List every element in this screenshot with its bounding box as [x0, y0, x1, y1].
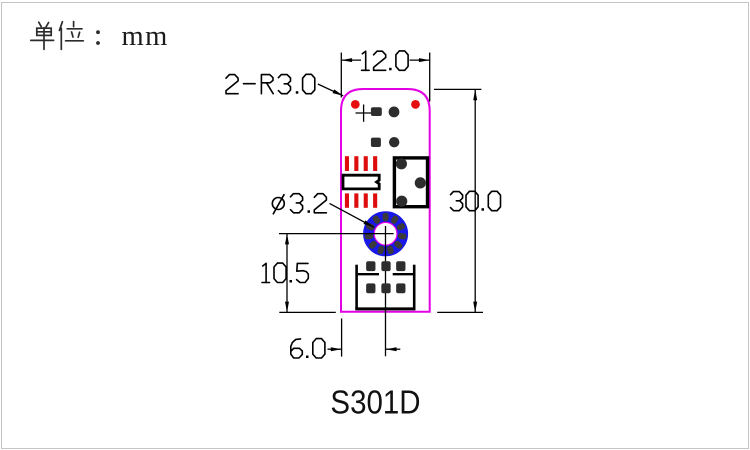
connector pad row lower	[366, 283, 405, 293]
leader 2-R3.0 line	[318, 84, 343, 96]
dim text 2-R3.0	[226, 74, 315, 93]
label fullwidth colon	[96, 30, 100, 45]
connector outline left	[355, 265, 358, 309]
mounting hole dark pads ring	[364, 213, 406, 255]
dim 12.0 extension line left	[340, 53, 342, 98]
connector outline bottom	[355, 307, 415, 310]
dim 6.0 tail right	[386, 348, 401, 350]
IC footprint with notch	[343, 175, 379, 189]
dim 30.0 arrow bottom	[473, 302, 477, 313]
dim text 12.0	[362, 51, 409, 70]
mounting hole magenta ring	[374, 222, 397, 245]
pad row1 square	[371, 107, 382, 116]
fiducial crosshair	[356, 105, 372, 122]
dim 12.0 extension line right	[429, 53, 431, 102]
connector outline right	[413, 265, 416, 309]
dim 12.0 line	[341, 59, 429, 61]
leader diam3.2 arrow	[364, 220, 375, 227]
dim 10.5 line	[286, 234, 288, 313]
pad row2 round	[389, 137, 399, 147]
dim text 30.0	[451, 191, 501, 210]
dim text 6.0	[291, 339, 325, 358]
component box hole 3	[396, 196, 407, 207]
dim 10.5 arrow top	[285, 234, 289, 245]
dim 6.0 leader segment	[328, 348, 342, 350]
dim 6.0 arrow left	[331, 347, 342, 351]
svg-text:S301D: S301D	[330, 383, 420, 421]
dim 10.5 extension line bottom	[279, 311, 336, 313]
mounting hole blue annulus	[369, 217, 403, 251]
red dot pad left	[351, 100, 360, 109]
dim 12.0 arrow right	[419, 58, 430, 62]
dim 6.0 arrow right	[386, 347, 397, 351]
pad row2 square	[371, 138, 381, 147]
pad row1 round	[389, 107, 400, 118]
connector inner bar right	[393, 273, 413, 275]
dim text 3.2 digits	[291, 194, 327, 213]
label 位 (unit char 2)	[59, 22, 83, 50]
red dot pad right	[411, 100, 420, 109]
leader diam3.2 line	[330, 203, 375, 227]
part number S301D	[330, 383, 420, 421]
hole centerline vertical	[385, 226, 387, 356]
label mm units text	[122, 21, 169, 52]
dim 30.0 extension line bottom	[437, 311, 483, 313]
connector pad row upper	[366, 261, 405, 271]
component box hole 1	[396, 158, 407, 169]
dim 30.0 extension line top	[434, 88, 481, 90]
dim 10.5 arrow bottom	[285, 302, 289, 313]
dim text 10.5	[262, 263, 308, 282]
label 单 (unit char 1)	[31, 22, 54, 49]
red stripe row lower	[345, 193, 377, 207]
dim 30.0 line	[474, 89, 476, 312]
PCB board outline (magenta, R3.0 top corners)	[341, 89, 430, 312]
component box hole 2	[415, 177, 426, 188]
svg-text:mm: mm	[122, 21, 169, 52]
connector inner bar left	[358, 273, 379, 275]
hole centerline horizontal	[279, 233, 394, 235]
dim 6.0 extension line left	[341, 318, 343, 356]
dim 12.0 arrow left	[341, 58, 352, 62]
dim 30.0 arrow top	[473, 89, 477, 100]
red stripe row upper	[345, 156, 377, 171]
dim text diameter symbol	[272, 195, 284, 214]
leader 2-R3.0 arrow	[333, 89, 344, 95]
component box right	[394, 158, 427, 207]
